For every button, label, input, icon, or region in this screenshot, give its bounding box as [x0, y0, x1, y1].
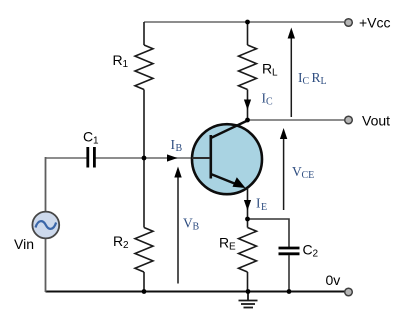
node at C2 bottom junction: [287, 289, 292, 294]
node at base C1/R1 junction: [142, 156, 147, 161]
terminal +Vcc: [345, 19, 353, 27]
capacitor C2: [279, 247, 300, 250]
svg-text:B: B: [193, 221, 200, 232]
svg-text:L: L: [321, 76, 327, 87]
svg-text:V: V: [183, 215, 193, 230]
wire emitter to C2: [248, 219, 290, 247]
svg-text:0v: 0v: [326, 272, 341, 288]
wire left input branch upper: [45, 157, 47, 211]
resistor RL: [247, 22, 249, 45]
emitter lead with arrow: [211, 174, 242, 187]
wire base rail: [46, 157, 87, 159]
node at top RL junction: [245, 20, 250, 25]
capacitor C1: [86, 147, 89, 168]
terminal 0v: [345, 288, 353, 296]
svg-text:2: 2: [123, 240, 129, 251]
ground: [247, 292, 249, 301]
resistor R2: [143, 158, 145, 228]
svg-text:V: V: [292, 164, 302, 179]
svg-text:Vout: Vout: [362, 113, 390, 129]
arrow IB on base wire: [167, 154, 178, 161]
base bar: [210, 135, 213, 179]
node at emitter RE junction: [245, 217, 250, 222]
svg-text:C: C: [266, 97, 273, 108]
svg-text:E: E: [229, 242, 236, 253]
svg-text:R: R: [219, 235, 229, 251]
transistor Q1: [192, 124, 262, 194]
wire top rail +Vcc: [144, 21, 344, 23]
base lead inside: [192, 157, 210, 159]
svg-text:C: C: [83, 129, 93, 145]
svg-text:B: B: [176, 143, 183, 154]
collector lead: [211, 121, 248, 139]
arrow IE on emitter wire: [244, 200, 251, 211]
svg-text:CE: CE: [302, 170, 315, 181]
arrow VCE: [283, 133, 285, 211]
wire left input branch lower: [45, 239, 47, 292]
arrow ICRL: [290, 32, 292, 117]
svg-text:R: R: [113, 233, 123, 249]
svg-text:1: 1: [123, 59, 129, 70]
svg-text:E: E: [261, 202, 267, 213]
svg-text:Vin: Vin: [14, 236, 34, 252]
svg-text:C: C: [303, 242, 313, 258]
resistor RE: [247, 219, 249, 228]
resistor R1: [143, 22, 145, 45]
node at R2 bottom junction: [142, 289, 147, 294]
terminal Vout: [345, 116, 353, 124]
wire C2 lower: [288, 255, 290, 292]
svg-text:R: R: [113, 52, 123, 68]
wire Vout rail: [248, 119, 345, 121]
source Vin: [32, 212, 59, 239]
wire bottom rail 0v: [46, 291, 345, 293]
node at ground junction: [246, 289, 251, 294]
svg-text:2: 2: [313, 249, 319, 260]
svg-text:R: R: [262, 61, 272, 77]
arrow IC on collector wire: [244, 100, 251, 111]
svg-text:1: 1: [93, 136, 99, 147]
svg-text:C: C: [303, 76, 310, 87]
svg-text:L: L: [272, 68, 278, 79]
arrow VB: [177, 171, 179, 284]
svg-text:+Vcc: +Vcc: [359, 15, 391, 31]
svg-text:R: R: [312, 70, 321, 85]
node at collector Vout junction: [245, 118, 250, 123]
wire emitter vertical: [247, 188, 249, 219]
